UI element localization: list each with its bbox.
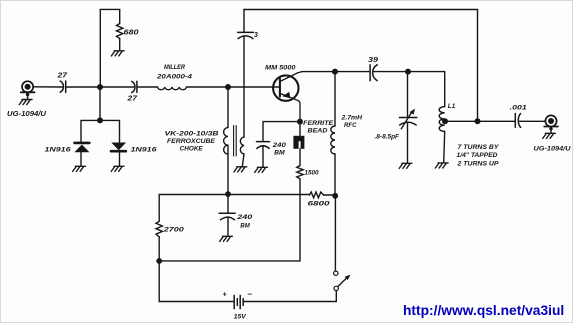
- svg-text:+: +: [223, 290, 228, 299]
- capacitor 39: [370, 65, 377, 81]
- ground (D2): [111, 166, 124, 171]
- resistor 2700: [156, 195, 162, 260]
- ground (T1 secondary): [234, 167, 247, 172]
- svg-text:7 TURNS BY: 7 TURNS BY: [458, 144, 500, 151]
- wire diode tee: [81, 120, 120, 143]
- svg-text:1500: 1500: [305, 170, 319, 177]
- resistor 1500: [297, 166, 303, 179]
- capacitor 27 (input series): [60, 81, 65, 92]
- wire L1 to ground: [444, 131, 445, 162]
- ground (input connector): [19, 100, 32, 105]
- svg-text:27: 27: [56, 73, 68, 80]
- wire emitter return down and left: [161, 179, 300, 261]
- svg-text:FERROXCUBE: FERROXCUBE: [167, 138, 216, 145]
- ground (D1): [73, 166, 86, 171]
- diode D1 1N916 (left, anode up): [74, 143, 89, 166]
- ground (240 BM emitter): [255, 167, 268, 172]
- connector J1 input UG-1094/U: [21, 81, 35, 99]
- ground (output connector): [543, 133, 556, 138]
- wire node K to battery rail: [159, 261, 234, 302]
- wire C27 to node A: [66, 86, 98, 88]
- node B (diode junction): [97, 117, 103, 123]
- wire R680 to ground: [119, 39, 121, 51]
- transformer T1 VK-200 primary winding: [224, 128, 228, 154]
- svg-text:UG-1094/U: UG-1094/U: [7, 111, 47, 118]
- ground (240 BM rail): [220, 236, 233, 241]
- svg-text:BM: BM: [274, 150, 285, 157]
- diode D2 1N916 (right, cathode up): [111, 143, 126, 167]
- svg-text:680: 680: [124, 30, 139, 37]
- svg-text:RFC: RFC: [344, 122, 357, 129]
- svg-text:VK-200-10/3B: VK-200-10/3B: [165, 131, 220, 138]
- svg-text:1N916: 1N916: [131, 147, 158, 154]
- capacitor 240 BM (rail bypass): [219, 195, 235, 237]
- wire collector to C39: [337, 71, 370, 73]
- svg-text:3: 3: [254, 32, 258, 39]
- capacitor 240 BM (emitter bypass): [257, 142, 270, 167]
- capacitor 27 (second series): [132, 81, 137, 92]
- connector J2 output UG-1094/U: [544, 115, 558, 133]
- node A (input junction): [97, 84, 103, 90]
- svg-text:FERRITE: FERRITE: [303, 120, 334, 127]
- node H (feedback rail junction): [475, 118, 481, 124]
- wire node A down to diode node: [99, 87, 101, 120]
- svg-text:CHOKE: CHOKE: [180, 146, 204, 153]
- inductor L1 (7 turns tapped): [439, 107, 445, 132]
- ground (L1): [435, 163, 448, 168]
- wire bead to R1500: [299, 149, 301, 166]
- svg-text:240: 240: [272, 142, 287, 149]
- wire battery to switch: [243, 291, 336, 302]
- watermark URL: [403, 303, 573, 318]
- svg-text:.001: .001: [510, 105, 527, 112]
- wire emitter bypass tee: [263, 122, 298, 142]
- wire node F to L1: [410, 72, 445, 107]
- wire top feedback rail: [244, 10, 478, 120]
- node G (L1 tap): [442, 118, 448, 124]
- svg-text:2700: 2700: [162, 227, 184, 234]
- wire choke primary: [227, 87, 229, 128]
- wire C27b to L Miller: [137, 86, 157, 88]
- svg-text:1N916: 1N916: [45, 147, 72, 154]
- wire C39 to node F: [373, 71, 406, 73]
- svg-text:MM 5000: MM 5000: [265, 65, 296, 72]
- svg-text:2.7mH: 2.7mH: [340, 115, 362, 122]
- capacitor CV .8-8.5pF trimmer: [399, 72, 416, 163]
- inductor Miller 20A000-4: [158, 87, 187, 90]
- capacitor 3 feedback with top rail: [238, 10, 254, 138]
- ground (trimmer): [399, 163, 412, 168]
- transformer T1 core: [234, 126, 237, 157]
- wire Miller to node C: [187, 86, 227, 88]
- ferrite bead FB1: [293, 122, 304, 149]
- node J (RFC/switch junction): [332, 193, 338, 199]
- svg-text:15V: 15V: [234, 313, 247, 320]
- wire node C to base: [230, 86, 279, 88]
- svg-text:UG-1094/U: UG-1094/U: [534, 146, 571, 153]
- wire node A to C27b: [102, 86, 135, 88]
- node I (choke bottom junction): [225, 191, 231, 197]
- wire node A up and over to R 680: [100, 9, 119, 87]
- svg-text:20A000-4: 20A000-4: [156, 74, 193, 81]
- resistor 6800: [310, 192, 324, 198]
- wire input to C 27: [33, 86, 63, 88]
- inductor RFC 2.7mH: [331, 72, 335, 194]
- node F (output tank junction): [405, 69, 411, 75]
- wire bias rail: [159, 194, 309, 196]
- wire C.001 to output connector: [518, 120, 545, 122]
- wire choke primary to rail: [227, 145, 229, 192]
- svg-text:240: 240: [236, 214, 253, 221]
- svg-text:6800: 6800: [308, 201, 331, 208]
- svg-text:L1: L1: [448, 103, 456, 110]
- wire secondary to ground: [242, 154, 244, 167]
- battery BT1 15V: [234, 295, 243, 308]
- svg-text:39: 39: [368, 57, 378, 64]
- svg-text:1/4" TAPPED: 1/4" TAPPED: [457, 152, 498, 159]
- svg-text:–: –: [248, 289, 253, 299]
- node D (collector/RFC): [332, 69, 338, 75]
- svg-text:27: 27: [126, 96, 138, 103]
- svg-text:.8-8.5pF: .8-8.5pF: [375, 134, 401, 141]
- switch S1: [334, 196, 351, 291]
- capacitor .001 output: [515, 114, 520, 128]
- svg-text:BM: BM: [240, 223, 250, 230]
- svg-text:MILLER: MILLER: [164, 64, 185, 71]
- resistor 680: [117, 24, 123, 39]
- wire collector rail: [302, 71, 333, 73]
- wire tap line to output: [445, 120, 515, 122]
- transformer T1 secondary winding: [240, 137, 244, 154]
- node E (emitter bypass junction): [297, 119, 303, 125]
- wire 6800 to node J: [324, 194, 334, 196]
- transistor Q1 MM5000: [273, 72, 302, 119]
- svg-text:BEAD: BEAD: [308, 128, 329, 135]
- svg-text:2 TURNS UP: 2 TURNS UP: [456, 160, 499, 167]
- node C (base/choke junction): [225, 84, 231, 90]
- node K (emitter return junction): [156, 258, 162, 264]
- ground (R680): [111, 51, 124, 56]
